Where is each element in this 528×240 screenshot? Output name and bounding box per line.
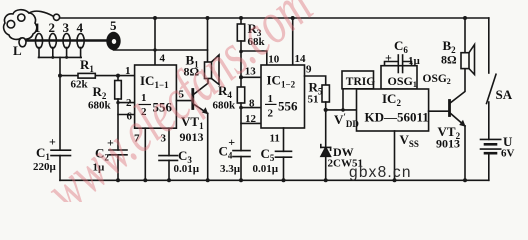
- svg-text:+: +: [49, 135, 56, 149]
- svg-text:0.01µ: 0.01µ: [253, 163, 279, 175]
- svg-text:1: 1: [268, 93, 274, 105]
- svg-text:TRIG: TRIG: [346, 76, 375, 88]
- svg-text:556: 556: [278, 99, 298, 114]
- svg-text:OSG2: OSG2: [423, 73, 451, 86]
- svg-text:51: 51: [308, 94, 319, 106]
- svg-text:8: 8: [249, 97, 255, 109]
- svg-text:14: 14: [295, 53, 307, 65]
- svg-text:0.01µ: 0.01µ: [174, 163, 200, 175]
- svg-text:9: 9: [306, 64, 312, 76]
- svg-text:4: 4: [160, 53, 166, 65]
- svg-text:11: 11: [270, 133, 280, 145]
- svg-text:5: 5: [110, 18, 117, 33]
- svg-text:6V: 6V: [501, 148, 515, 160]
- svg-text:9013: 9013: [436, 137, 460, 151]
- svg-text:1µ: 1µ: [408, 55, 421, 67]
- svg-text:OSG1: OSG1: [388, 74, 417, 89]
- svg-text:3: 3: [63, 20, 70, 35]
- svg-text:SA: SA: [496, 87, 513, 102]
- svg-text:62k: 62k: [71, 79, 89, 91]
- svg-text:680k: 680k: [88, 100, 112, 112]
- svg-text:2: 2: [268, 108, 274, 120]
- svg-text:4: 4: [77, 20, 84, 35]
- svg-text:+: +: [385, 51, 392, 65]
- svg-text:1: 1: [125, 65, 131, 77]
- svg-text:1: 1: [34, 20, 41, 35]
- svg-text:KD—56011: KD—56011: [365, 110, 429, 125]
- svg-text:3.3µ: 3.3µ: [220, 163, 241, 175]
- svg-text:+: +: [228, 135, 235, 149]
- svg-text:2: 2: [49, 20, 56, 35]
- svg-text:gbx8.cn: gbx8.cn: [349, 164, 412, 181]
- svg-text:12: 12: [245, 113, 257, 125]
- svg-text:8Ω: 8Ω: [441, 53, 457, 67]
- svg-text:L: L: [13, 43, 22, 58]
